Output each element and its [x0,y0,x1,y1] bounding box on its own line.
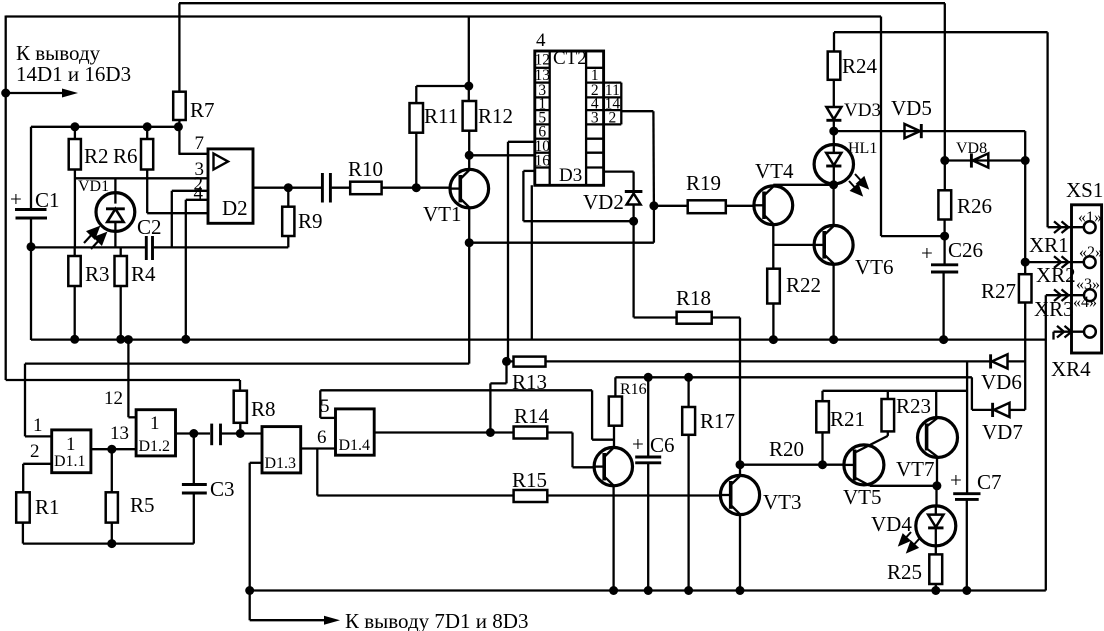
svg-text:VD8: VD8 [956,140,987,157]
wire R20 line [740,437,844,465]
resistor R22 [767,269,821,304]
wire pin2 of D2 [172,191,208,248]
wire R17 bottom [687,435,689,591]
diode VD8 [956,140,988,168]
wire VD7 jog [972,377,993,410]
wire supply line B [823,391,968,401]
wire C3 top [193,434,195,485]
diode VD2 [583,190,642,221]
capacitor C1 [10,187,60,218]
wire R3 to ground rail [74,286,76,340]
wire R3 chain [74,247,76,256]
wire pin12 drop to D1.2 [128,340,136,418]
svg-text:R26: R26 [957,194,992,218]
label K vyvodu 14D1 i 16D3 [16,41,131,86]
svg-text:D2: D2 [222,196,248,220]
resistor R6 [113,139,153,170]
node C1 rail junction [27,242,36,251]
svg-text:14D1 и 16D3: 14D1 и 16D3 [16,62,131,86]
resistor R11 [410,103,459,133]
VD1 light arrows [84,228,106,250]
svg-text:HL1: HL1 [848,140,877,157]
contact 2 [1079,244,1103,268]
ground rail [31,338,1046,340]
svg-text:R22: R22 [786,273,821,297]
node R27 top / XR1 [1021,258,1030,267]
transistor VT5 [843,445,884,509]
svg-text:VD2: VD2 [583,190,624,214]
wire C26 to ground [942,272,944,340]
node C7 rail [962,586,971,595]
svg-text:D1.2: D1.2 [139,438,171,455]
wire VT2 collector to R16 [613,426,615,448]
svg-text:VT3: VT3 [763,490,802,514]
wire C6 top [647,377,649,457]
wire D1.4 out to R14 [374,431,513,433]
wire R22 to ground [772,304,774,341]
wire VT1 emitter line to R19 node [469,206,654,243]
svg-text:R20: R20 [769,437,804,461]
wire D3 pin14 to R19 node [621,111,654,206]
wire D1.1 pin1 [25,435,52,437]
resistor R21 [816,401,865,432]
node R11/R12 top [464,82,473,91]
resistor R16 [609,381,647,426]
svg-text:VD3: VD3 [844,100,881,121]
wire R23 to VT5 collector [855,431,888,452]
svg-text:D1.4: D1.4 [339,437,371,454]
connector XS1 box [1066,178,1103,353]
node VD3/VD5 junction [829,127,838,136]
wire R11 top loop [416,86,469,103]
svg-text:+: + [632,432,644,456]
svg-text:6: 6 [317,427,327,448]
wire R12 to VT1 collector [468,131,470,170]
wire VD8 right down to R27 node [1024,161,1026,275]
svg-text:C1: C1 [35,188,60,212]
svg-text:1: 1 [33,415,43,436]
wire rail2 drop to C26 [881,17,945,237]
node VT5/VT7 emitters [932,481,941,490]
contact 1 [1078,209,1102,233]
svg-text:XR3: XR3 [1034,297,1074,321]
wire C3 bottom [193,493,195,544]
HL1 light arrows [849,174,868,195]
wire rail2 drop to R11/R12 [468,17,470,102]
resistor R23 [882,394,932,431]
wire VD5 down to VD8 [1024,131,1026,160]
wire pin4 of D2 [186,200,208,340]
svg-text:D1.3: D1.3 [265,455,297,472]
node feedback bottom rail [245,586,254,595]
wire VD6 to R27 vertical [1008,360,1026,362]
wire R4 to ground rail [120,286,122,340]
wire R1 bottom rail [23,523,194,544]
capacitor C6 [632,432,675,463]
diode VD3 [826,80,881,121]
wire VT6 base line [773,244,814,246]
resistor R25 [887,554,942,584]
transistor VT2 [594,447,632,485]
wire D1.1 pin2 [23,464,52,493]
svg-text:7: 7 [195,133,205,154]
node R4 ground [116,335,125,344]
resistor R1 [16,492,59,522]
svg-text:1: 1 [66,434,76,455]
VD4 light arrows [900,532,920,552]
svg-text:XS1: XS1 [1066,178,1103,202]
wire R14 to VT2 base [547,433,594,468]
svg-text:VD6: VD6 [981,370,1022,394]
wire VD5 line [834,130,1025,132]
transistor VT1 [423,169,489,226]
svg-text:5: 5 [320,396,330,417]
chevrons XR1 pin1 [1054,221,1069,233]
svg-text:«3»: «3» [1076,276,1100,293]
wire R5 bottom [111,523,113,544]
wire R5 top [111,449,113,492]
wire R6 to D2 [147,170,208,214]
svg-text:C6: C6 [650,433,675,457]
capacitor C26 [921,238,983,272]
svg-text:VT7: VT7 [896,457,935,481]
wire mid rail y247 left [31,246,145,248]
node HL1 bottom [829,180,838,189]
svg-text:VD4: VD4 [871,512,912,536]
svg-text:R4: R4 [131,262,156,286]
node R5 rail [107,539,116,548]
svg-text:R12: R12 [478,104,513,128]
svg-text:VT4: VT4 [755,159,794,183]
wire R24 top to pin1 drop [834,32,1048,227]
node VT1 emitter [465,238,474,247]
svg-text:R8: R8 [251,397,276,421]
wire R11 bottom [415,133,417,188]
wire R19 to VT4 base [726,205,754,207]
svg-text:R1: R1 [35,495,60,519]
wire C1 bottom [30,218,32,248]
wire R7 drop from rail1 [178,3,180,92]
resistor R17 [682,407,735,435]
transistor VT4 [754,159,794,225]
svg-text:R10: R10 [348,157,383,181]
wire R10 to VT1 base [382,187,451,189]
node arrow junction [1,89,10,98]
IC D3 counter CT2 [534,30,621,186]
node VT3 collector / R20 [736,460,745,469]
wire VT4 emitter [772,224,774,269]
transistor VT6 [814,225,893,279]
svg-text:R11: R11 [424,104,458,128]
wire VT3 collector [739,465,741,476]
wire VT1 emitter [468,207,470,242]
node R22 ground [769,335,778,344]
wire R18 to VT3 collector [712,318,740,465]
node VT3 rail [736,586,745,595]
wire rail1 drop at x945 [944,3,946,190]
svg-text:2: 2 [609,110,617,127]
wire top rail 2 [6,15,881,17]
svg-text:+: + [921,241,933,265]
resistor R12 [463,101,513,131]
wire C1 top bus y126 [31,127,178,211]
wire R9 stub [287,188,289,207]
wire R21 bottom [821,432,823,464]
wire R2 stub [74,127,76,139]
svg-text:D1.1: D1.1 [54,453,86,470]
resistor R26 [938,190,992,219]
svg-text:R5: R5 [130,493,155,517]
svg-text:C7: C7 [977,470,1002,494]
node C26 ground [939,335,948,344]
svg-text:R13: R13 [512,370,547,394]
wire VT3 emitter [739,514,741,590]
svg-text:R15: R15 [512,468,547,492]
resistor R3 [68,256,109,286]
node D1.1 out [107,445,116,454]
node R17 rail [684,586,693,595]
svg-text:4: 4 [536,30,546,51]
node R7 bus junction [174,122,183,131]
wire D1.3 out [301,449,514,496]
svg-text:+: + [10,187,22,211]
resistor R7 [173,92,214,122]
node R8 bottom [236,429,245,438]
contact 4 [1073,294,1097,338]
node C6 top [644,373,653,382]
wire D2 output [253,187,321,189]
chevrons pin4 [1057,326,1072,338]
wire D3 pin-aux to VD2 anode [523,171,633,221]
wire top rail 1 [179,2,945,4]
wire C6 bottom [647,463,649,591]
node R11 bottom junction [412,183,421,192]
resistor R4 [115,256,157,286]
svg-text:R23: R23 [896,394,931,418]
gate D1.1 [52,430,91,473]
resistor R18 [676,286,712,324]
svg-text:R17: R17 [700,409,735,433]
svg-text:C2: C2 [137,215,162,239]
svg-text:R3: R3 [85,262,110,286]
wire left border vertical [5,16,7,381]
wire D1.4 pin5 loop [320,390,615,439]
svg-text:1: 1 [150,413,160,434]
node VD8 left [940,156,949,165]
wire R17 top [687,377,689,407]
capacitor C7 [950,468,1002,499]
bottom rail [250,589,1046,591]
svg-text:R19: R19 [686,171,721,195]
resistor R5 [106,492,155,522]
resistor R15 [512,468,547,502]
node R13 left [502,357,511,366]
svg-text:«2»: «2» [1079,244,1103,261]
wire supply line A [615,376,972,378]
gate D1.2 [136,410,175,456]
resistor R14 [514,404,550,439]
svg-text:13: 13 [110,423,129,444]
chevrons pin2 [1054,256,1069,268]
svg-text:12: 12 [104,388,123,409]
svg-text:R27: R27 [981,279,1016,303]
wire VT7 bottom [936,457,938,486]
resistor R19 [686,171,726,213]
wire XR1 pin2 line [1025,261,1085,263]
capacitor coupling C (D1.2-D1.3) [212,424,221,446]
resistor R10 [348,157,383,194]
svg-text:VD5: VD5 [891,96,932,120]
svg-text:R25: R25 [887,560,922,584]
gate D1.4 [336,409,375,455]
node R17 top [684,373,693,382]
node VT2 emitter rail [609,586,618,595]
node R2 top [70,122,79,131]
wire D3 right to VD2 cathode [604,172,634,192]
diode VD5 [891,96,932,138]
capacitor coupling C (D2-R10) [322,173,330,203]
wire R4 stub [120,247,122,256]
diode VD6 [981,354,1022,394]
svg-text:CT2: CT2 [553,48,587,69]
wire R23 top stub [887,391,889,399]
svg-text:+: + [950,468,962,492]
wire C7 bottom [966,499,968,590]
wire VD8 line [945,159,1025,161]
wire D1.2 out [176,432,211,434]
node R14 left [486,428,495,437]
wire arrow to 14D1/16D3 [6,89,78,98]
svg-text:R14: R14 [514,404,550,428]
resistor R24 [828,52,878,80]
wire D1.3 feedback [250,463,262,620]
wire VT6 collector up [832,185,834,226]
svg-text:VD7: VD7 [982,420,1023,444]
node D1.2 out [189,429,198,438]
svg-text:2: 2 [30,441,40,462]
svg-text:R24: R24 [842,54,878,78]
svg-text:К выводу 7D1 и 8D3: К выводу 7D1 и 8D3 [345,609,528,631]
wire VT1 collector to D3 pin16 [469,154,535,156]
wire D3 bottom-left to ground [531,185,533,340]
resistor R8 [234,391,276,423]
svg-text:XR2: XR2 [1036,263,1076,287]
op-amp D2 [208,149,253,223]
photodiode VD1 [78,178,135,247]
svg-text:4: 4 [194,183,204,204]
capacitor C2 [137,215,162,260]
wire R16 top to line A [614,377,616,396]
gate D1.3 [262,427,301,473]
svg-text:R18: R18 [676,286,711,310]
svg-text:C3: C3 [210,477,235,501]
wire to R19 [654,205,688,207]
resistor R13 [507,357,548,394]
wire R2 bottom to rail [74,170,76,248]
node pin4 ground [181,335,190,344]
wire pin3 line D2 [75,177,208,179]
svg-text:«1»: «1» [1078,209,1102,226]
wire VT4 collector to HL1 node [773,185,833,187]
svg-text:VT5: VT5 [843,485,882,509]
svg-text:VT6: VT6 [855,255,894,279]
capacitor C3 [182,477,235,501]
transistor VT7 [896,418,958,482]
wire R8 bottom [239,423,241,434]
diode VD7 [982,403,1023,444]
resistor R27 [981,274,1032,303]
svg-text:R6: R6 [113,144,138,168]
svg-text:VT1: VT1 [423,202,462,226]
svg-text:16: 16 [534,153,550,170]
wire R7 to pin7 of D2 [178,120,208,154]
node pin12 ground [124,335,133,344]
wire cap to D1.3 [222,432,262,434]
node VD8 right [1021,156,1030,165]
wire mid rail y247 right [154,246,288,248]
transistor VT3 [720,475,801,514]
wire R13 zigzag to R14 node [490,361,506,432]
node C26 top [940,232,949,241]
node C6 rail [644,586,653,595]
wire R25 bottom [935,584,937,591]
svg-text:R9: R9 [298,209,323,233]
wire left border to R8 [6,380,240,391]
svg-text:12: 12 [534,52,550,69]
wire R6 stub [146,127,148,139]
wire arrow to 7D1/8D3 [250,616,340,625]
contact 3 [1076,276,1100,301]
wire VD4 top [935,486,937,506]
wire C1 down to ground rail [30,247,32,340]
wire R13 line to VD6 [546,360,992,362]
node VT1 collector [465,151,474,160]
svg-text:R21: R21 [830,407,865,431]
node D2 output [284,183,293,192]
svg-text:R7: R7 [190,98,215,122]
svg-text:XR4: XR4 [1051,357,1091,381]
wire VT6 emitter to ground [832,264,834,341]
wire VT1 emitter down to D1 feed [25,243,469,437]
led HL1 [814,140,877,185]
svg-text:R16: R16 [620,381,647,398]
wire ground rail to XR3 jog [1046,295,1085,590]
wire pin1 line [1048,226,1085,228]
node R3 ground [70,335,79,344]
led VD4 [871,506,956,555]
wire VT7 top to line B [935,391,937,419]
wire VT2 emitter to bottom rail [612,485,614,590]
wire R27 bottom to VD6/VD7 [1024,303,1026,410]
resistor R9 [282,207,322,236]
node R21 bottom [818,460,827,469]
node VT6 ground [829,335,838,344]
svg-text:D3: D3 [559,165,582,186]
svg-text:«4»: «4» [1073,294,1097,311]
wire D3 pin10 to R13 [508,142,535,362]
wire cap to R10 [332,187,351,189]
node R6 top [143,122,152,131]
node VD2 anode [629,217,638,226]
svg-text:R2: R2 [84,144,109,168]
chevrons pin3 [1054,289,1069,301]
resistor R2 [69,139,109,170]
node R25 rail [931,586,940,595]
wire supply vertical V1 [966,361,968,493]
svg-text:VD1: VD1 [78,178,109,195]
wire VT5 emitter line [870,485,937,487]
svg-text:C26: C26 [948,238,983,262]
